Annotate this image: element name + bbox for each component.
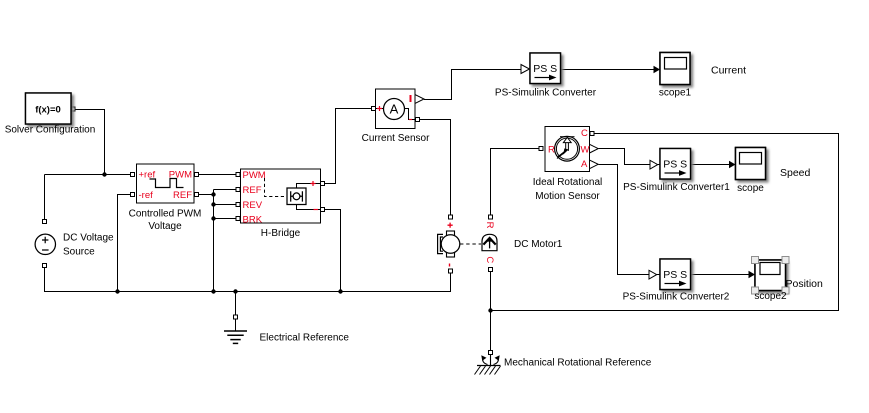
svg-text:A: A	[390, 102, 399, 117]
svg-text:Mechanical Rotational Referenc: Mechanical Rotational Reference	[504, 358, 652, 369]
svg-text:W: W	[581, 145, 590, 156]
svg-text:PS S: PS S	[533, 63, 557, 75]
svg-text:Source: Source	[63, 247, 95, 258]
svg-text:REF: REF	[173, 190, 192, 201]
svg-text:C: C	[581, 128, 588, 139]
svg-text:Current: Current	[711, 65, 746, 77]
svg-text:Speed: Speed	[780, 167, 811, 179]
svg-text:Controlled PWM: Controlled PWM	[129, 209, 202, 220]
svg-text:BRK: BRK	[243, 215, 263, 226]
svg-text:Ideal Rotational: Ideal Rotational	[533, 177, 603, 188]
svg-text:REF: REF	[243, 185, 262, 196]
svg-text:Position: Position	[786, 278, 824, 290]
svg-text:PS-Simulink Converter: PS-Simulink Converter	[495, 88, 597, 99]
svg-text:Voltage: Voltage	[148, 221, 182, 232]
svg-text:C: C	[484, 256, 495, 263]
svg-text:Current Sensor: Current Sensor	[362, 133, 430, 144]
svg-text:PWM: PWM	[243, 170, 266, 181]
svg-text:PS S: PS S	[663, 159, 687, 171]
svg-text:REV: REV	[243, 200, 263, 211]
svg-text:-ref: -ref	[139, 190, 154, 201]
svg-text:scope: scope	[737, 183, 764, 194]
svg-text:A: A	[581, 159, 588, 170]
svg-text:DC Motor1: DC Motor1	[514, 239, 563, 250]
svg-text:R: R	[548, 145, 555, 156]
svg-text:Motion Sensor: Motion Sensor	[535, 191, 600, 202]
svg-text:PS-Simulink Converter2: PS-Simulink Converter2	[623, 292, 730, 303]
svg-text:H-Bridge: H-Bridge	[261, 228, 301, 239]
svg-text:scope2: scope2	[754, 291, 787, 302]
svg-text:PS-Simulink Converter1: PS-Simulink Converter1	[623, 182, 730, 193]
svg-text:Electrical Reference: Electrical Reference	[260, 333, 350, 344]
svg-text:PS S: PS S	[663, 269, 687, 281]
svg-text:scope1: scope1	[659, 88, 692, 99]
svg-text:f(x)=0: f(x)=0	[35, 105, 61, 116]
svg-text:R: R	[484, 222, 495, 229]
svg-text:DC Voltage: DC Voltage	[63, 233, 114, 244]
svg-text:Solver Configuration: Solver Configuration	[5, 125, 96, 136]
